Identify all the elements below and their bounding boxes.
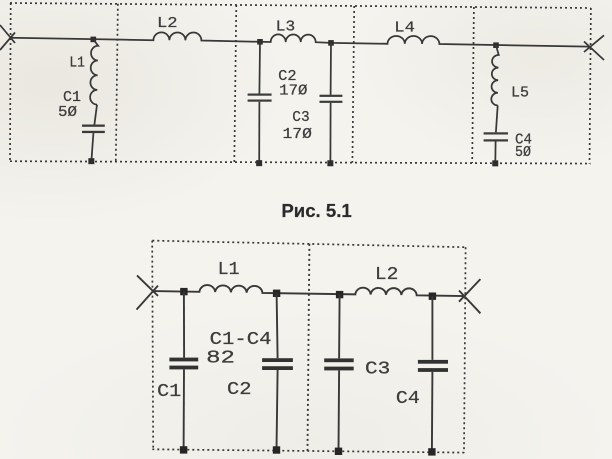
wire capacitor C2 to bottom node bbox=[258, 102, 260, 164]
svg-text:C4: C4 bbox=[396, 389, 420, 409]
node junction bottom N3 bbox=[336, 291, 343, 298]
svg-text:C1-C4: C1-C4 bbox=[210, 330, 272, 350]
node bottom rail C2 bbox=[273, 446, 280, 453]
inductor L1 vertical coil bbox=[90, 39, 98, 104]
wire main horizontal bottom filter with coils L1 L2 bbox=[153, 285, 464, 296]
capacitor C3 bottom bbox=[324, 358, 354, 362]
dashed divider between section 4 and 5 bbox=[472, 7, 474, 163]
wire N3 down to capacitor C3 bbox=[330, 43, 332, 95]
svg-text:17Ø: 17Ø bbox=[279, 83, 307, 100]
wire N4 down to capacitor C4 bbox=[431, 296, 433, 360]
capacitor C1 bottom bbox=[169, 358, 198, 362]
wire coil to capacitor C4 bbox=[496, 105, 498, 132]
svg-text:C3: C3 bbox=[365, 360, 390, 380]
node bottom of section 1 bbox=[88, 158, 94, 164]
wire N1 down to capacitor C1 bbox=[183, 292, 185, 358]
node bottom rail C1 bbox=[180, 446, 187, 453]
wire N2 down to capacitor C2 bbox=[258, 42, 261, 94]
wire capacitor C3 to bottom node bbox=[338, 370, 341, 451]
wire coil to capacitor C1 bbox=[94, 105, 97, 126]
node junction bottom N4 bbox=[429, 293, 436, 300]
capacitor C2 bbox=[248, 94, 272, 96]
node junction N3 bbox=[328, 40, 334, 46]
dashed divider between section 3 and 4 bbox=[352, 6, 354, 163]
wire capacitor C4 to bottom node bbox=[431, 372, 434, 452]
capacitor C1 bbox=[82, 125, 105, 127]
capacitor C3 bbox=[320, 95, 343, 97]
svg-text:Рис. 5.1: Рис. 5.1 bbox=[281, 200, 351, 221]
svg-text:C3: C3 bbox=[292, 109, 309, 126]
node junction N2 bbox=[257, 39, 263, 45]
svg-text:C1: C1 bbox=[157, 382, 181, 402]
node bottom rail C4 bbox=[428, 448, 435, 455]
svg-text:L1: L1 bbox=[69, 55, 85, 72]
svg-text:L1: L1 bbox=[218, 260, 240, 280]
node bottom of section 5 bbox=[492, 160, 498, 166]
svg-text:C2: C2 bbox=[227, 380, 252, 400]
svg-text:82: 82 bbox=[206, 349, 235, 369]
terminal X left (bottom filter input) bbox=[137, 275, 159, 309]
capacitor C2 bottom bbox=[262, 358, 293, 362]
terminal X right (top filter output) bbox=[584, 35, 604, 60]
capacitor C4 bbox=[484, 132, 508, 134]
svg-text:L4: L4 bbox=[394, 20, 415, 37]
dashed divider between section 2 and 3 bbox=[234, 5, 236, 162]
svg-text:L2: L2 bbox=[375, 265, 399, 285]
wire capacitor C4 to bottom node bbox=[494, 142, 496, 164]
node junction bottom N1 bbox=[180, 288, 187, 295]
svg-text:L2: L2 bbox=[157, 15, 178, 32]
node bottom of C3 bbox=[327, 160, 333, 166]
wire capacitor C1 to bottom node bbox=[91, 133, 93, 161]
dashed enclosure, bottom filter frame bbox=[152, 241, 465, 453]
wire N3 down to capacitor C3 bbox=[338, 295, 341, 359]
node junction bottom N2 bbox=[273, 290, 280, 297]
svg-text:5Ø: 5Ø bbox=[515, 144, 531, 161]
wire capacitor C1 to bottom node bbox=[183, 369, 185, 450]
terminal X right (bottom filter output) bbox=[459, 279, 480, 313]
node junction N4 bbox=[493, 42, 499, 48]
terminal X left (top filter input) bbox=[0, 25, 15, 50]
wire capacitor C3 to bottom node bbox=[329, 103, 331, 163]
wire main horizontal with series coils L2 L3 L4 bbox=[10, 32, 589, 46]
capacitor C4 bottom bbox=[418, 360, 448, 364]
svg-text:17Ø: 17Ø bbox=[283, 126, 312, 143]
svg-text:L5: L5 bbox=[511, 85, 529, 102]
dashed divider between section 1 and 2 bbox=[116, 4, 118, 162]
svg-text:L3: L3 bbox=[276, 19, 296, 36]
dashed divider bottom filter bbox=[308, 244, 310, 451]
node junction N1 bbox=[91, 37, 97, 43]
wire N2 down to capacitor C2 bbox=[277, 293, 278, 358]
wire capacitor C2 to bottom node bbox=[277, 370, 278, 450]
dashed enclosure, top filter outer frame bbox=[10, 3, 591, 164]
node bottom of C2 bbox=[256, 160, 262, 166]
inductor L5 vertical coil bbox=[491, 45, 498, 105]
svg-text:5Ø: 5Ø bbox=[58, 104, 77, 121]
node bottom rail C3 bbox=[335, 448, 342, 455]
